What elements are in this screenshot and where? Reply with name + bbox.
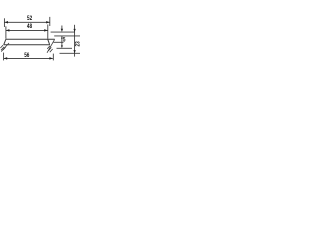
svg-text:48: 48 — [27, 23, 32, 30]
dimension 5 — [61, 26, 63, 46]
tile bottom line — [54, 35, 80, 37]
hatch — [0, 45, 3, 48]
left break cut — [0, 43, 9, 52]
dimension 23 — [74, 25, 76, 57]
floor line — [60, 52, 81, 54]
dimension 56 — [4, 53, 54, 61]
tile top line — [51, 31, 75, 33]
profile right slant edge — [48, 39, 50, 45]
svg-text:52: 52 — [27, 15, 32, 22]
profile bottom line — [4, 44, 50, 46]
dimension 52 — [4, 17, 49, 27]
hatch — [47, 46, 50, 49]
right break cut — [47, 39, 55, 52]
svg-text:5: 5 — [63, 37, 66, 44]
svg-text:23: 23 — [75, 41, 80, 46]
svg-text:56: 56 — [24, 52, 29, 59]
mid line — [57, 47, 73, 49]
adhesive bed line — [54, 41, 64, 43]
dimension 48 — [6, 25, 48, 39]
profile left slant edge — [4, 39, 6, 45]
profile top line — [6, 38, 55, 40]
